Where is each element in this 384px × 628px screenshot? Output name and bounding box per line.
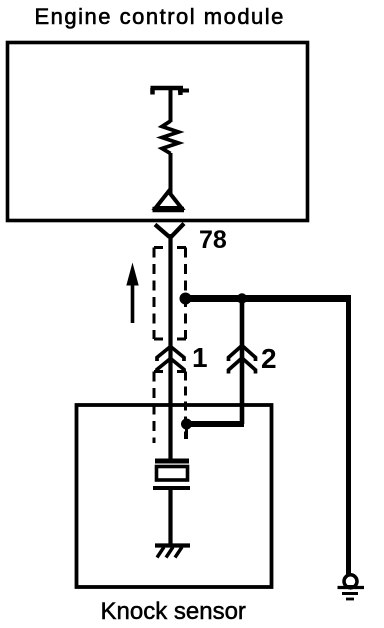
junction dot: branch to shield: [181, 419, 192, 430]
wire: T-bar to resistor: [169, 86, 173, 122]
chassis ground (knock sensor): [155, 546, 190, 558]
piezo element crystal: [157, 467, 188, 481]
svg-text:1: 1: [192, 342, 208, 373]
ground wire (horizontal run): [185, 295, 349, 302]
junction dot: shield to ground wire: [180, 293, 192, 305]
piezo element bottom plate: [153, 486, 190, 490]
wire: resistor to triangle: [169, 153, 173, 194]
shield (lower dashed section): [154, 372, 186, 444]
knock sensor box: [77, 405, 272, 587]
svg-text:78: 78: [199, 226, 227, 254]
wire: piezo to chassis ground: [168, 489, 172, 546]
buffer triangle terminal: [156, 192, 182, 209]
branch wire to connector 2: [240, 299, 245, 425]
svg-text:Knock sensor: Knock sensor: [101, 598, 246, 625]
piezo element top plate: [155, 459, 189, 464]
connector 1 (chevrons): [157, 347, 184, 374]
engine control module box: [8, 43, 308, 221]
body ground (ring terminal): [338, 575, 365, 599]
svg-text:Engine control module: Engine control module: [35, 4, 285, 29]
internal supply terminal T-bar: [151, 88, 190, 95]
main signal wire (pin 78 to knock sensor): [168, 234, 172, 461]
shield (upper dashed section): [154, 248, 186, 340]
svg-text:2: 2: [261, 343, 277, 374]
signal direction arrow: [126, 263, 138, 324]
connector 2 (chevrons): [229, 346, 256, 374]
ground wire (right vertical to body ground): [346, 295, 351, 577]
connector pin 78 (Y symbol): [155, 224, 184, 238]
tee junction dot: [237, 293, 247, 303]
resistor (internal pull-up): [162, 121, 179, 154]
